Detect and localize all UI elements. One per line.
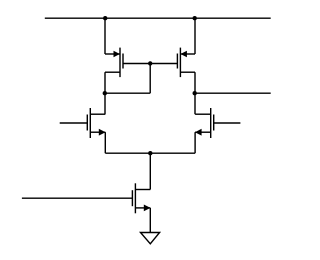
wire output node to right — [195, 92, 271, 94]
wire gate node down — [149, 63, 151, 93]
junction dot VDD/M1 — [103, 16, 107, 20]
wire VDD rail to M2 source — [194, 18, 196, 54]
wire VDD top rail — [45, 17, 271, 19]
wire M3 source down — [104, 132, 106, 153]
junction dot output node — [193, 91, 197, 95]
transistor M2 (PMOS, current mirror right) — [150, 48, 195, 78]
junction dot tail node — [148, 151, 152, 155]
ground symbol — [141, 233, 160, 244]
wire VDD rail to M1 source — [104, 18, 106, 54]
transistor M1 (PMOS, current mirror left) — [105, 48, 150, 78]
wire gate node to M1 drain node — [105, 92, 150, 94]
wire tail node horizontal — [105, 152, 195, 154]
wire tail node to M5 drain — [149, 153, 151, 189]
wire M2 drain to M4 drain — [194, 72, 196, 114]
transistor M4 (NMOS, diff pair right) — [195, 108, 241, 138]
wire M1 drain to M3 drain — [104, 72, 106, 114]
wire M5 source to ground — [149, 208, 151, 233]
transistor M5 (NMOS, tail current source) — [22, 183, 151, 213]
wire M4 source down — [194, 132, 196, 153]
junction dot M1 drain node — [103, 91, 107, 95]
junction dot mirror gate node — [148, 61, 152, 65]
transistor M3 (NMOS, diff pair left) — [60, 108, 106, 138]
junction dot VDD/M2 — [193, 16, 197, 20]
